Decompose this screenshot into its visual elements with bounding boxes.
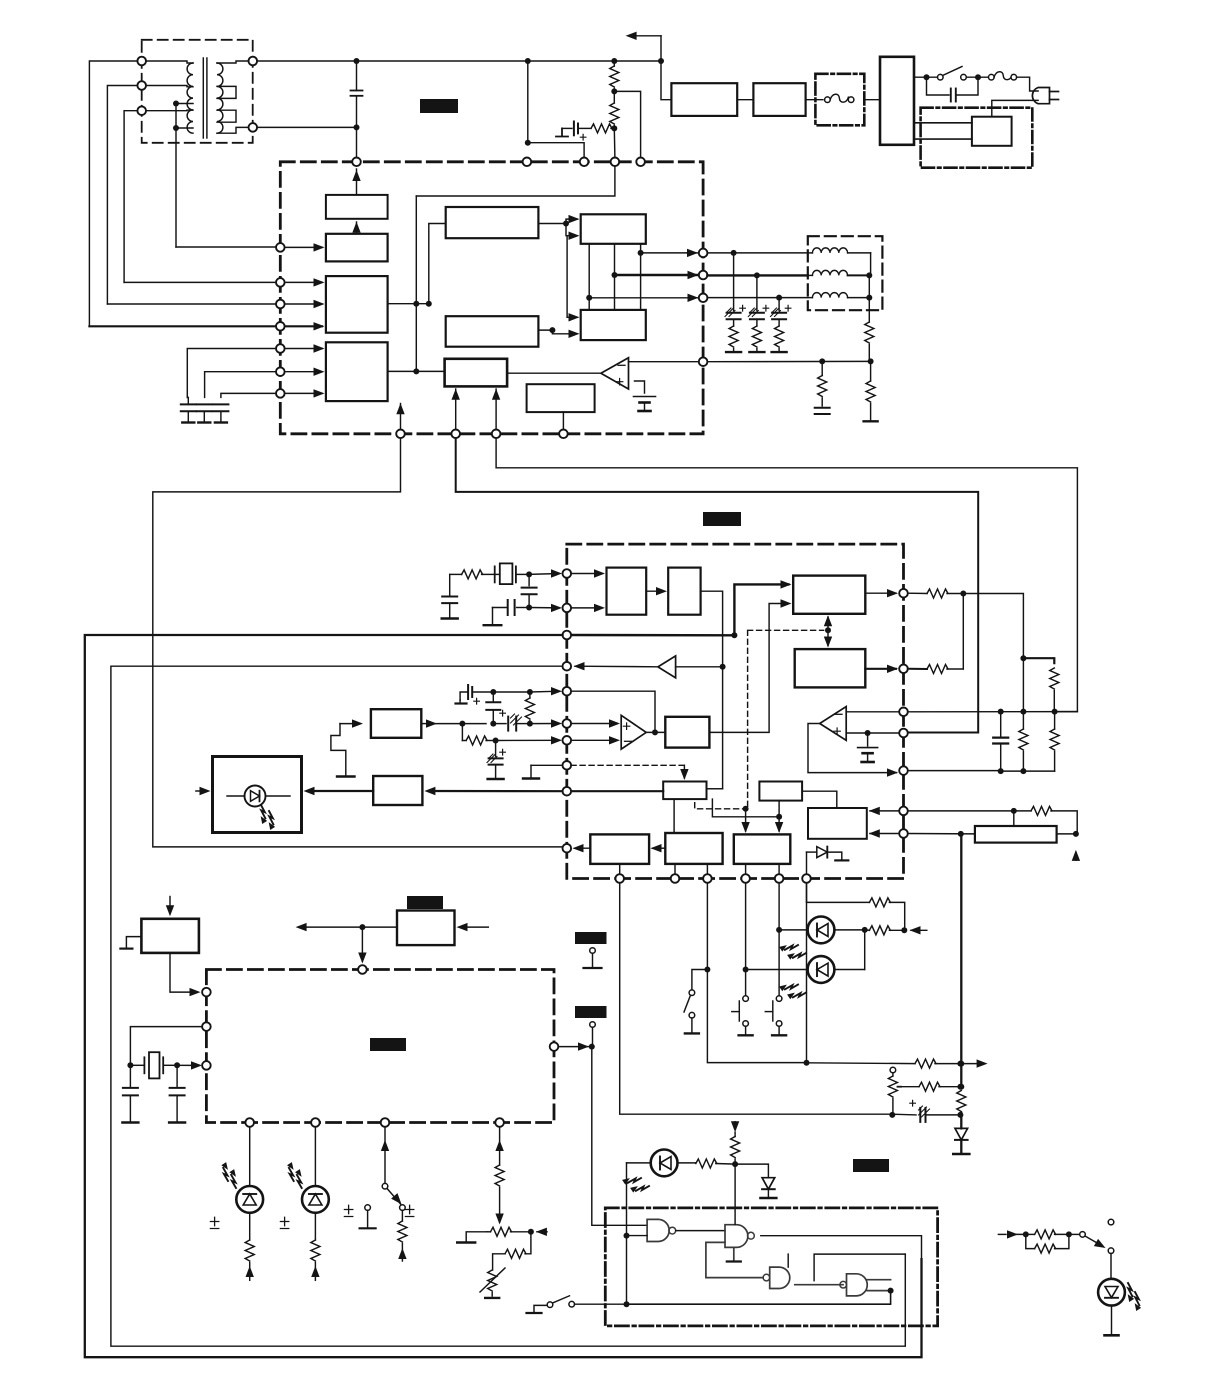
U3 right pin — [550, 1042, 559, 1051]
arrow stub right — [960, 1059, 987, 1067]
trimmer VR3 — [888, 1067, 901, 1115]
wire blockW to pin10 arrow — [573, 844, 591, 852]
wire U3 out down to NAND1 — [592, 1047, 647, 1226]
switch SW7 feed arrow — [998, 1230, 1025, 1238]
zener diode D9 — [735, 1164, 776, 1198]
wire VR4 right — [1057, 833, 1078, 835]
wire blockF output to blockJ — [538, 330, 577, 334]
wire blockQ out to pinR2 — [865, 665, 898, 673]
junction chain at R19 — [958, 1061, 964, 1067]
resistor R5 — [726, 319, 741, 352]
resistor R15 below SW2 — [398, 1210, 407, 1261]
wire blockC output — [388, 303, 429, 305]
wire U1 pin2 to blockC — [285, 278, 325, 286]
wire blockG to comparator — [507, 372, 601, 374]
junction buffer tap — [720, 664, 726, 670]
pulse source PG1 — [331, 724, 355, 777]
electrolytic capacitor C8 — [748, 275, 768, 319]
wire cross link — [712, 799, 779, 817]
junction R12 out — [493, 738, 499, 744]
wire blockP out to pinR1 — [865, 589, 898, 597]
junction out row3 — [586, 295, 592, 301]
LED D4 — [285, 1161, 329, 1212]
wire blockI-J vertical c — [640, 244, 642, 310]
junction column top — [1020, 655, 1026, 661]
diode D1 to ground — [807, 847, 849, 875]
transformer T1 secondary winding — [217, 63, 223, 133]
wire blockR out — [707, 788, 723, 790]
IC U3 dashed enclosure — [206, 970, 554, 1123]
wire U2 pin4 loop left — [111, 666, 905, 1346]
wire C1 to U1 top pin — [356, 127, 358, 157]
wire bottom pin b3 riser to blockG — [492, 389, 500, 430]
NAND gate N4 — [840, 1274, 891, 1296]
junction r2 branch — [754, 272, 760, 278]
LED D3 — [219, 1161, 263, 1212]
black label AMP — [407, 896, 443, 909]
wire U2 pinB5 to button SW6 — [778, 883, 780, 996]
wire dashed to blockR arrow — [680, 765, 688, 780]
resistor R14 below D4 — [311, 1213, 320, 1281]
connector CN1 — [880, 57, 914, 145]
arrow into blockI in1 — [569, 215, 580, 223]
U1 bottom pin b4 — [559, 430, 568, 439]
junction R3 bottom — [611, 125, 617, 131]
block W2 — [397, 911, 455, 946]
U1 left pin 4 — [276, 322, 285, 331]
wire U2 pin1 to blockK — [571, 569, 605, 577]
junction out row1 — [638, 250, 644, 256]
wire fuse to connector — [864, 99, 880, 101]
transformer T1 core — [203, 58, 207, 138]
junction X-out — [459, 721, 465, 727]
wire D6 riser — [864, 930, 866, 970]
resistor R10 crystal drive — [462, 570, 495, 579]
wire T1-c to left rail — [124, 111, 137, 283]
junction W2 out — [359, 924, 365, 930]
junction out row2 — [612, 272, 618, 278]
comparator U2b plus label — [834, 728, 840, 734]
wire U1 r2 to filter bold — [707, 274, 807, 276]
wire U2 pin3 loop left bold — [85, 635, 922, 1357]
U2 block S — [734, 834, 791, 864]
wire blockR to blockT — [673, 799, 675, 833]
junction C15 tap — [490, 721, 496, 727]
junction F2 left — [975, 74, 981, 80]
wire blockH to bottom pin b4 — [562, 412, 564, 429]
U2 right pin r5 — [899, 766, 908, 775]
U2 bottom pin b5 — [775, 874, 784, 883]
arrow stub up — [1072, 850, 1080, 861]
wire pinR3 to U2b minus — [846, 711, 899, 713]
wire comparator minus to pin — [629, 361, 699, 363]
U1 bottom pin b1 — [396, 430, 405, 439]
terminal circle T1-d — [249, 57, 258, 66]
transformer T1 tap wire — [176, 104, 193, 248]
black label TP1 — [575, 932, 607, 944]
wire comp minus rail — [908, 711, 1078, 713]
LED D5 indicator — [778, 917, 864, 963]
wire U2 pin6 to comp plus — [571, 719, 620, 727]
electrolytic capacitor C2 — [562, 122, 586, 141]
junction U2b plus batt — [865, 730, 871, 736]
junction top rail x356 — [354, 58, 360, 64]
inductor L3 — [808, 293, 870, 298]
comparator U2a triangle — [621, 715, 646, 749]
wire R31 riser to node — [962, 594, 964, 670]
electrolytic capacitor C9 — [771, 298, 791, 320]
wire U2 pin5 to comp out node — [571, 691, 655, 732]
wire blockD output — [388, 370, 445, 372]
U2 bottom pin b3 — [703, 874, 712, 883]
wire U2 pin2 to blockK — [571, 604, 605, 612]
junction exchange — [825, 627, 831, 633]
black label U2 — [703, 512, 741, 526]
wire U1 pin6 to blockD — [285, 368, 325, 376]
junction C-out b — [426, 301, 432, 307]
wire to U2 pin7 — [496, 736, 562, 744]
U1 bottom pin b3 — [492, 430, 501, 439]
capacitor C12 — [522, 574, 537, 607]
transformer T1 secondary connection steps — [217, 61, 249, 133]
junction C20 right — [957, 1112, 963, 1118]
ground G2 at pin8 — [523, 765, 563, 778]
wire U1 pin1 to blockB — [285, 243, 325, 251]
junction D-out — [413, 368, 419, 374]
junction sense mid — [804, 1060, 810, 1066]
junction VR4 right — [1073, 831, 1079, 837]
resistor R29 at U2 r1 — [908, 589, 964, 598]
wire N1 out to N2 — [676, 1230, 725, 1232]
wire blockW to bottom pin — [619, 864, 621, 874]
U2 right pin r2 — [899, 665, 908, 674]
resistor R23 in chain — [960, 1064, 962, 1087]
wire pin9 to blockR — [571, 790, 663, 792]
junction X1 right — [526, 571, 532, 577]
wire dashed junction to blockS — [741, 809, 749, 833]
wire L2-L3 join — [868, 275, 870, 297]
terminal circle T1-a — [137, 57, 146, 66]
U3 bottom pin 2 — [311, 1118, 320, 1127]
arrow into MOD1 — [196, 787, 211, 795]
wire bias to U2 pin5 — [530, 687, 562, 695]
resistor R8 — [818, 361, 827, 406]
junction top rail x527 — [525, 58, 531, 64]
junction VR1 right — [528, 1229, 534, 1235]
capacitor C21 — [993, 712, 1008, 772]
resistor R32 — [1019, 712, 1028, 772]
wire U1 pin5 to blockD — [285, 344, 325, 352]
transformer T1 dashed enclosure — [142, 40, 253, 143]
crystal X2 — [130, 1052, 177, 1078]
U1 top pin t4 — [611, 158, 620, 167]
U3 bottom pin 3 — [381, 1118, 390, 1127]
U2 block P — [793, 576, 865, 614]
U2 left pin 5 — [563, 687, 572, 696]
junction dashed node — [743, 806, 749, 812]
PSU dash-dot enclosure — [921, 108, 1033, 168]
wire bold jog — [1023, 658, 1054, 663]
plusminus label D3 — [210, 1217, 218, 1228]
capacitor C10 — [815, 408, 830, 414]
U1 left pin 5 — [276, 344, 285, 353]
wire to U2 pin2 — [529, 604, 562, 612]
wire blockP blockQ exchange — [824, 615, 832, 647]
resistor R18 wiper link — [901, 1082, 960, 1091]
junction R18 right — [957, 1084, 963, 1090]
upper bias rail — [456, 692, 469, 704]
U2 block M — [665, 717, 709, 748]
resistor R16 — [495, 1165, 504, 1225]
oscillator block Z — [141, 919, 199, 953]
junction r1 branch — [731, 250, 737, 256]
push button SW6 — [765, 996, 786, 1036]
wire to U2 pin6 — [530, 719, 562, 727]
U2 bottom pin b4 — [741, 874, 750, 883]
wire blockU out to blockV — [802, 791, 837, 808]
junction U3 out — [589, 1044, 595, 1050]
wire U1 pin4 to blockC — [285, 322, 325, 330]
toggle switch SW4 — [684, 970, 707, 1034]
wire U1 b2 loop to U2 comp plus — [456, 438, 979, 732]
U1 block D — [326, 342, 388, 401]
wire comp out to blockM — [646, 731, 665, 733]
wire buffer to pin4 — [574, 662, 723, 670]
resistor R2 vertical — [610, 61, 619, 91]
junction R11 tap — [527, 721, 533, 727]
wire blockS to bottom pins — [746, 864, 780, 874]
switch SW7 — [1069, 1219, 1114, 1253]
resistor R28 parallel — [1026, 1234, 1069, 1253]
U2 block U — [759, 782, 802, 801]
wire sense to R19 — [807, 1062, 916, 1065]
wire node to ecap C14 — [462, 723, 486, 725]
wire U1 pin3 to blockC — [285, 300, 325, 308]
resistor R9 — [864, 361, 878, 421]
arrow stub down to NAND2 top resistor — [731, 1121, 740, 1164]
U1 left pin 7 — [276, 389, 285, 398]
junction L2 out — [866, 272, 872, 278]
block ACF2 — [753, 83, 805, 116]
junction pin3 riser — [731, 632, 737, 638]
U3 left pin 3 — [202, 1061, 211, 1070]
wire U1 output row3 — [589, 294, 698, 302]
wire U1 output row2 bold — [615, 271, 699, 279]
black label TP2 — [575, 1006, 607, 1018]
junction F-out — [549, 327, 555, 333]
junction X2 right — [174, 1062, 180, 1068]
U2 left pin 9 — [563, 787, 572, 796]
switch SW2 — [382, 1183, 405, 1210]
wire blockI-J vertical a — [588, 244, 590, 310]
U1 block B — [326, 234, 388, 262]
junction rail cap — [998, 709, 1004, 715]
wire U1 r3 to filter — [707, 297, 807, 299]
wire CN1 to PSU lower — [914, 138, 972, 140]
wire junction down to U3 top pin — [358, 927, 366, 963]
wire left rail to U1 pin2 — [124, 281, 276, 283]
wire F2 to plug — [1017, 77, 1039, 91]
fuse F1 dash-dot enclosure — [815, 74, 864, 126]
wire loop step NAND feed — [814, 1254, 905, 1281]
wire left rail to U1 pin4 — [89, 325, 276, 327]
wire blockB to blockA — [352, 222, 360, 234]
arrow into blockJ in2 — [569, 330, 580, 338]
wire blockX out — [421, 719, 462, 727]
U2 block W — [590, 834, 649, 864]
wire U2 pinB1 drop — [620, 883, 893, 1114]
IC U2 dashed enclosure — [567, 544, 904, 878]
U2 left pin 10 — [563, 844, 572, 853]
ground G4 — [527, 1305, 548, 1313]
wire VR4 wiper stem — [1013, 811, 1015, 826]
U3 top pin — [358, 965, 367, 974]
U1 right pin r3 — [699, 294, 708, 303]
wire U3 right pin out — [558, 1042, 592, 1050]
U1 block E — [446, 207, 539, 238]
block ACF1 — [671, 83, 737, 116]
U1 right pin r4 — [699, 357, 708, 366]
junction NAND1 in2 — [624, 1233, 630, 1239]
junction out rail a — [998, 768, 1004, 774]
U3 left pin 2 — [202, 1022, 211, 1031]
U2 left pin 2 — [563, 604, 572, 613]
junction pinB5 LED tap — [776, 927, 782, 933]
wire blockY to LED module — [304, 787, 374, 795]
capacitor C6 at U1 pin7 — [213, 393, 276, 422]
arrow stub into blockW2 right — [457, 923, 489, 931]
U1 block C — [326, 276, 388, 333]
U1 right pin r1 — [699, 249, 708, 258]
U1 block I — [581, 214, 646, 244]
wire U1 output row1 — [641, 249, 698, 257]
filter FL1 dashed enclosure — [808, 236, 883, 310]
resistor R7 — [772, 319, 787, 352]
test point TP2 — [590, 1022, 596, 1047]
wire U3 pinB1 to LED D3 — [249, 1127, 251, 1186]
U3 bottom pin 4 — [495, 1118, 504, 1127]
resistor R30 — [1050, 668, 1059, 712]
wire U3 pinB2 to LED D4 — [314, 1127, 316, 1186]
junction bottom rail — [624, 1301, 630, 1307]
wire blockW2 out left arrow — [296, 923, 397, 931]
terminal circle T1-b — [137, 81, 146, 90]
U1 left pin 2 — [276, 278, 285, 287]
wire blockI-J vertical b — [614, 244, 616, 310]
arrow stub into VR1 — [536, 1228, 547, 1236]
U1 top pin t2 — [523, 158, 532, 167]
electrolytic capacitor C7 — [725, 253, 745, 319]
U2 left pin 3 — [563, 631, 572, 640]
arrow into blockI in2 — [569, 232, 580, 240]
wire arrow stem down to AC chain — [661, 36, 671, 100]
junction R30 bottom — [1052, 709, 1058, 715]
wire column x1023 through rail — [1022, 658, 1024, 711]
U2 bottom pin b1 — [615, 874, 624, 883]
junction X2 left — [127, 1062, 133, 1068]
junction N4 out — [888, 1288, 894, 1294]
comparator U2a minus label — [625, 740, 632, 742]
junction E-out — [563, 221, 569, 227]
wire X1 to U2 pin1 — [529, 569, 562, 577]
NAND dash-dot enclosure — [605, 1208, 937, 1326]
wire x527 drop — [528, 61, 584, 158]
wire L1 output drop — [870, 253, 872, 276]
push button SW5 — [732, 996, 753, 1036]
NAND gate N2 — [725, 1167, 754, 1262]
capacitor C11 — [442, 574, 462, 618]
electrolytic capacitor C14 inline — [493, 710, 530, 730]
wire blockA to top pin — [352, 169, 360, 195]
resistor R17 — [493, 1232, 531, 1270]
switch SW1 — [938, 67, 967, 80]
U3 left pin 1 — [202, 988, 211, 997]
U2 block T — [665, 833, 722, 864]
wire CN1 to PSU upper — [914, 122, 972, 124]
wire bottom pin b1 riser to blockD — [396, 403, 404, 429]
potentiometer VR4 body — [975, 826, 1057, 843]
resistor R20 LED chain — [865, 926, 905, 935]
resistor R33 — [1050, 712, 1059, 772]
wire bottom rail inside NAND box — [627, 1291, 891, 1305]
junction tap B — [173, 125, 179, 131]
wire CN1 to switch SW1 — [914, 76, 938, 78]
resistor R21 — [869, 898, 904, 930]
resistor R13 below D3 — [245, 1213, 254, 1281]
U2 right pin r4 — [899, 729, 908, 738]
junction tap A — [173, 101, 179, 107]
wire N2 feedback step — [706, 1242, 763, 1277]
resistor R1 — [578, 124, 614, 133]
wire T1-e lower rail — [257, 126, 356, 128]
wire U1 r4 sense line — [707, 360, 870, 362]
capacitor C4 at U1 pin5 — [181, 349, 276, 423]
wire top rail — [257, 60, 661, 62]
arrow stub into blockZ top — [166, 897, 174, 917]
test point TP1 — [584, 948, 602, 968]
wire blockV inputs from pinR6 — [869, 807, 899, 815]
IC U1 dashed enclosure — [280, 162, 703, 434]
wire R3 to U1 pin — [613, 128, 616, 157]
junction top rail x614 — [611, 58, 617, 64]
wire U2 pinB3 sense line — [707, 883, 806, 1063]
fuse F2 element — [989, 72, 1017, 80]
wire U2 pin3 bold input — [571, 634, 734, 637]
U1 left pin 6 — [276, 367, 285, 376]
wire blockM out to blockP in2 — [709, 599, 791, 732]
wire T1-b to left rail — [107, 86, 137, 305]
U1 top pin t5 — [636, 158, 645, 167]
resistor R11 vertical — [525, 692, 534, 724]
wire feedback top horizontal — [416, 166, 615, 196]
junction sense b — [868, 358, 874, 364]
U2 left pin 4 — [563, 662, 572, 671]
wire U2 pin8 dashed — [571, 764, 684, 766]
U2 block L — [668, 568, 700, 615]
junction top rail x661 — [658, 58, 664, 64]
capacitor C3 across SW1 — [927, 77, 979, 101]
resistor R27 — [1026, 1230, 1069, 1239]
U2 left pin 7 — [563, 736, 572, 745]
LED D2 emitter — [227, 786, 290, 831]
comparator U1a plus label — [616, 379, 622, 385]
capacitor C16 vertical — [486, 692, 500, 724]
AC plug P1 — [1032, 88, 1058, 104]
NAND gate N3 — [763, 1254, 790, 1288]
U1 block J — [581, 310, 646, 340]
wire PG1 to block X — [340, 719, 363, 727]
transformer T1 primary connection wires — [146, 61, 193, 111]
